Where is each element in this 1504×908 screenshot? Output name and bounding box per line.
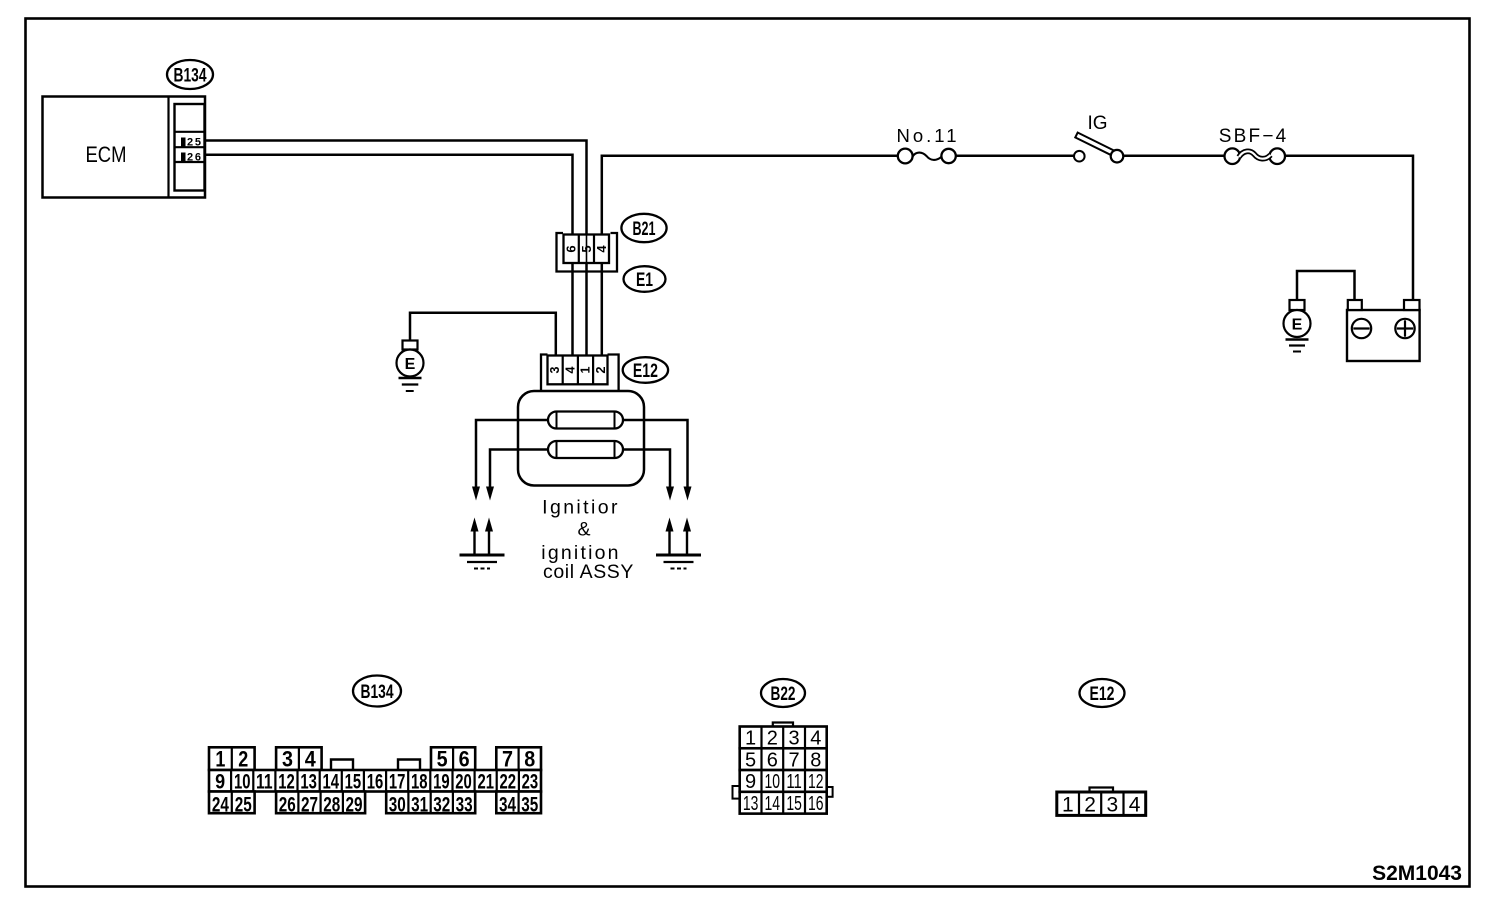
- svg-text:5: 5: [437, 747, 448, 772]
- svg-text:3: 3: [1107, 793, 1119, 816]
- fuse No.11: [898, 149, 913, 164]
- svg-text:26: 26: [187, 152, 201, 164]
- svg-text:34: 34: [499, 793, 516, 817]
- pinout label oval B134: [353, 676, 401, 707]
- svg-text:3: 3: [789, 728, 800, 750]
- wire fuse SBF-4 to battery positive: [1284, 156, 1413, 300]
- coil 2: [548, 441, 623, 458]
- switch IG: [1074, 151, 1085, 162]
- svg-text:6: 6: [459, 747, 470, 772]
- svg-text:E12: E12: [1090, 684, 1115, 705]
- B134 pins 1-2: [209, 747, 255, 770]
- ground E terminal: [403, 341, 418, 350]
- svg-text:19: 19: [433, 770, 450, 793]
- wire fuse No.11 to switch IG: [955, 155, 1075, 158]
- B134 pins 9-23: [209, 770, 541, 792]
- svg-text:B134: B134: [361, 682, 394, 703]
- svg-text:32: 32: [433, 793, 450, 817]
- svg-text:4: 4: [305, 747, 317, 772]
- wire ECM A26 to B21 pin6: [204, 155, 573, 236]
- pinout E12 key notch: [1090, 788, 1114, 793]
- svg-text:2: 2: [594, 366, 608, 373]
- ignitor and ignition coil ASSY box: [518, 391, 644, 486]
- pinout B22 right tab: [827, 787, 833, 797]
- arrow up at x=687: [686, 531, 688, 554]
- svg-text:28: 28: [323, 793, 340, 817]
- ground E circle: [397, 350, 424, 377]
- B134 pins 34-35: [496, 792, 541, 814]
- ground hatching: [399, 377, 422, 379]
- svg-text:13: 13: [300, 770, 317, 793]
- svg-text:7: 7: [502, 747, 513, 772]
- svg-text:8: 8: [810, 749, 821, 771]
- pinout B22 grid: [740, 727, 827, 749]
- wire switch IG to fuse SBF-4: [1123, 155, 1226, 158]
- ECM pin A26: [181, 153, 186, 162]
- pinout label oval E12: [1080, 679, 1125, 707]
- connector label oval B134: [167, 60, 213, 89]
- B134 key notch 1: [331, 760, 353, 771]
- connector B21 shell: [557, 233, 618, 272]
- svg-text:21: 21: [477, 770, 494, 793]
- arrow up at x=489: [488, 531, 490, 554]
- svg-text:3: 3: [548, 366, 562, 373]
- pinout E12 pins 1-4: [1057, 792, 1146, 815]
- svg-text:E12: E12: [633, 361, 658, 382]
- wire battery negative to ground E: [1297, 271, 1355, 300]
- svg-text:1: 1: [215, 747, 225, 772]
- B134 pins 5-6: [431, 747, 475, 770]
- svg-text:26: 26: [279, 793, 296, 817]
- arrow down at x=476: [472, 487, 480, 501]
- svg-text:9: 9: [215, 770, 225, 793]
- svg-text:7: 7: [789, 749, 800, 771]
- svg-text:B21: B21: [633, 219, 656, 240]
- svg-text:24: 24: [212, 793, 229, 817]
- pinout B22 left tab: [733, 786, 740, 799]
- svg-text:12: 12: [808, 771, 824, 793]
- svg-text:1: 1: [1062, 793, 1074, 816]
- svg-text:2: 2: [767, 728, 778, 750]
- B134 pins 7-8: [496, 747, 541, 770]
- svg-text:4: 4: [1129, 793, 1141, 816]
- wire ECM A25 to B21 pin5: [204, 141, 587, 237]
- svg-text:16: 16: [808, 793, 824, 815]
- battery negative terminal: [1348, 300, 1362, 310]
- svg-text:16: 16: [367, 770, 384, 793]
- battery plus symbol: [1395, 319, 1414, 338]
- svg-text:33: 33: [456, 793, 473, 817]
- B134 pins 26-29: [276, 792, 365, 814]
- svg-text:25: 25: [187, 137, 201, 149]
- arrow up at x=474.5: [473, 531, 475, 554]
- B134 key notch 2: [398, 760, 420, 771]
- svg-text:23: 23: [522, 770, 539, 793]
- svg-text:13: 13: [743, 793, 759, 815]
- svg-text:17: 17: [389, 770, 406, 793]
- svg-text:22: 22: [500, 770, 517, 793]
- fusible link SBF-4: [1225, 148, 1241, 164]
- svg-text:18: 18: [411, 770, 428, 793]
- svg-text:15: 15: [786, 793, 802, 815]
- wire B21 pin5 to E12 pin1: [585, 262, 588, 356]
- svg-text:6: 6: [767, 749, 778, 771]
- connector E12 pins 3,4,1,2: [548, 356, 608, 385]
- svg-text:11: 11: [256, 770, 273, 793]
- ground hatching at battery: [1286, 338, 1309, 340]
- ECM box: [43, 97, 206, 198]
- battery positive terminal: [1404, 300, 1420, 310]
- wire coil2 left output: [490, 450, 548, 488]
- connector B21 pins 6,5,4: [564, 235, 610, 264]
- svg-text:35: 35: [521, 793, 538, 817]
- svg-text:SBF−4: SBF−4: [1219, 126, 1289, 147]
- svg-text:27: 27: [301, 793, 318, 817]
- connector E12 shell: [541, 355, 548, 392]
- B134 pins 24-25: [209, 792, 255, 814]
- ECM pin A25: [181, 138, 186, 147]
- svg-text:3: 3: [282, 747, 293, 772]
- wire coil1 right output: [623, 420, 688, 487]
- svg-text:ECM: ECM: [86, 142, 127, 167]
- svg-text:4: 4: [563, 366, 577, 373]
- svg-text:9: 9: [745, 771, 756, 793]
- svg-text:B22: B22: [771, 684, 796, 705]
- label oval E1: [624, 266, 666, 292]
- svg-text:E: E: [1292, 317, 1303, 334]
- svg-text:11: 11: [786, 771, 802, 793]
- svg-text:2: 2: [1084, 793, 1096, 816]
- svg-text:8: 8: [524, 747, 535, 772]
- svg-text:15: 15: [345, 770, 362, 793]
- arrow down at x=687.5: [684, 487, 692, 501]
- ground at x=678.5: [656, 554, 701, 557]
- svg-text:&: &: [577, 519, 590, 541]
- svg-text:E1: E1: [636, 270, 653, 291]
- wire coil2 right output: [623, 450, 670, 488]
- arrow up at x=669.5: [668, 531, 670, 554]
- svg-text:4: 4: [810, 728, 821, 750]
- ECM connector body B134: [175, 104, 205, 191]
- battery minus symbol: [1352, 319, 1371, 338]
- svg-text:14: 14: [765, 793, 781, 815]
- label oval B21: [621, 214, 666, 242]
- B134 pins 30-33: [386, 792, 475, 814]
- B134 pins 3-4: [276, 747, 322, 770]
- pinout label oval B22: [761, 679, 805, 707]
- svg-text:1: 1: [579, 366, 593, 373]
- wire power feed to B21 pin4: [602, 156, 898, 236]
- svg-text:IG: IG: [1087, 113, 1107, 134]
- svg-text:B134: B134: [174, 65, 207, 86]
- wire coil1 left output: [476, 420, 548, 487]
- svg-text:14: 14: [322, 770, 339, 793]
- svg-text:29: 29: [346, 793, 363, 817]
- svg-text:2: 2: [238, 747, 248, 772]
- svg-text:Ignitior: Ignitior: [542, 497, 620, 519]
- wire B21 pin4 to E12 pin2: [601, 262, 604, 356]
- svg-text:10: 10: [765, 771, 781, 793]
- pinout B22 key notch: [773, 723, 793, 727]
- svg-text:12: 12: [278, 770, 295, 793]
- battery: [1347, 310, 1420, 361]
- ground at x=482: [460, 554, 505, 557]
- coil 1: [548, 412, 623, 429]
- svg-text:4: 4: [594, 245, 609, 253]
- wire ground E to E12 pin3: [410, 313, 556, 356]
- svg-text:1: 1: [745, 728, 756, 750]
- svg-text:coil ASSY: coil ASSY: [543, 561, 634, 583]
- svg-text:No.11: No.11: [897, 125, 960, 146]
- svg-text:31: 31: [411, 793, 428, 817]
- svg-text:E: E: [405, 356, 416, 373]
- svg-text:10: 10: [234, 770, 251, 793]
- label oval E12: [623, 357, 668, 383]
- svg-text:5: 5: [745, 749, 756, 771]
- wire B21 pin6 to E12 pin4: [571, 262, 574, 356]
- svg-text:30: 30: [389, 793, 406, 817]
- svg-text:6: 6: [564, 245, 579, 252]
- svg-text:S2M1043: S2M1043: [1372, 862, 1462, 885]
- svg-text:20: 20: [455, 770, 472, 793]
- arrow down at x=670: [666, 487, 674, 501]
- arrow down at x=490: [486, 487, 494, 501]
- svg-text:25: 25: [235, 793, 252, 817]
- svg-text:5: 5: [579, 245, 594, 252]
- ground E at battery: [1290, 300, 1305, 310]
